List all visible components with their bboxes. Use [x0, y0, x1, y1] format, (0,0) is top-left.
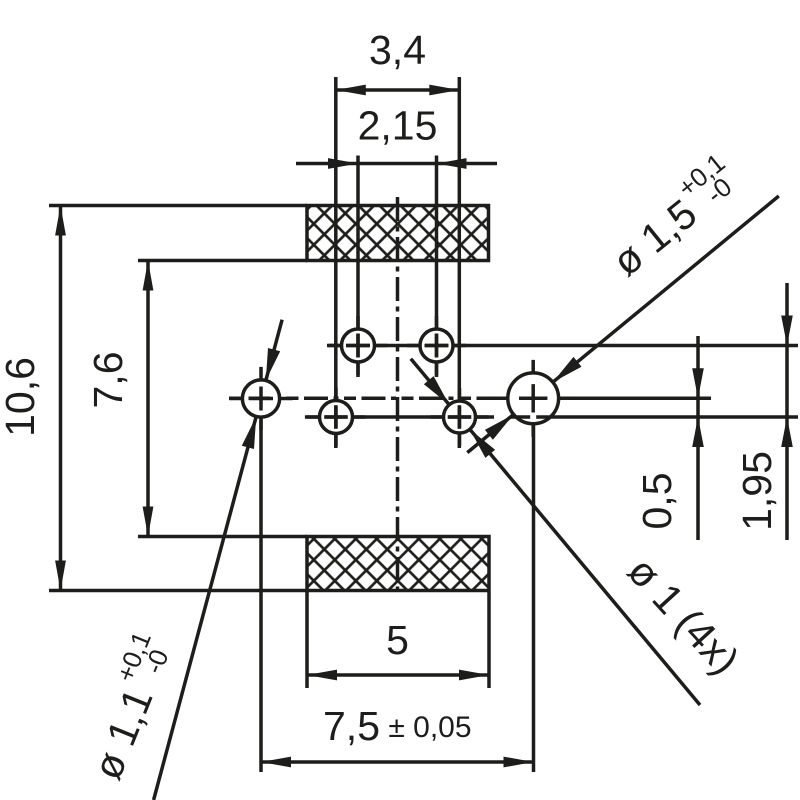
hole dia 1,1 left — [229, 367, 292, 430]
label dia 1,1 +0,1/-0 — [74, 627, 182, 786]
label dia 1 (4x) — [619, 548, 748, 683]
leader dia 1 (4x) hole (opposite side arrow) — [411, 359, 449, 405]
hole dia 1 top-right — [407, 316, 466, 375]
hole dia 1,5 right — [495, 360, 572, 437]
label dia 1,5 +0,1/-0 — [597, 147, 748, 284]
ext line 3,4 right / hole M2 axis — [458, 77, 462, 448]
svg-text:5: 5 — [386, 617, 409, 663]
dimension 3,4 — [336, 88, 460, 92]
leader dia 1,5 hole — [553, 196, 779, 382]
vertical centerline — [396, 197, 400, 590]
top hatched plate — [307, 206, 489, 261]
dimension 7,5 +/-0,05 — [259, 414, 263, 772]
hole dia 1 mid-right — [431, 388, 489, 446]
hole dia 1 mid-left — [307, 388, 366, 447]
centerline gaps at holes — [370, 343, 373, 349]
svg-text:3,4: 3,4 — [369, 27, 426, 73]
leader dia 1,1 hole (opposite side arrow) — [266, 320, 282, 381]
dimension 5 — [305, 592, 309, 688]
ext line 2,15 right / hole T2 axis — [435, 156, 439, 378]
dimension 2,15 — [296, 162, 497, 166]
svg-text:1,95: 1,95 — [734, 451, 780, 531]
svg-text:7,6: 7,6 — [85, 352, 131, 409]
ext line 3,4 left / hole M1 axis — [334, 77, 338, 448]
dimension 1,95 — [785, 283, 789, 540]
leader dia 1,1 hole — [154, 417, 257, 800]
dimension 7,6 — [138, 259, 307, 263]
svg-text:10,6: 10,6 — [0, 357, 43, 437]
horizontal centerline — [229, 397, 505, 401]
leader dia 1,5 hole (opposite side arrow) — [467, 414, 513, 452]
lower hole row line left part — [305, 415, 494, 419]
upper hole row line — [327, 344, 798, 348]
svg-text:2,15: 2,15 — [358, 103, 438, 149]
dimension 10,6 — [49, 204, 307, 208]
ext line 2,15 left / hole T1 axis — [356, 156, 360, 378]
dimension 0,5 — [556, 397, 711, 401]
lower hole row line right part — [511, 415, 798, 419]
svg-text:0,5: 0,5 — [634, 473, 680, 530]
bottom hatched plate — [307, 537, 489, 591]
leader dia 1 (4x) hole — [470, 429, 700, 705]
hole dia 1 top-left — [329, 316, 388, 375]
